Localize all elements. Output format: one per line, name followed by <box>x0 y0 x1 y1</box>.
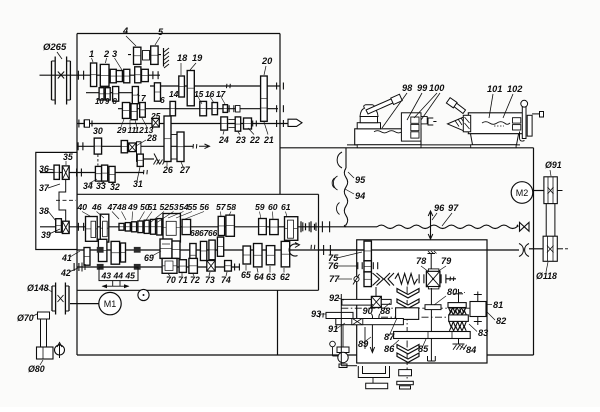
labels 43 44 45 with throw arrows <box>101 271 136 289</box>
gear 6 <box>154 83 160 101</box>
vertical feed screw axis x431 <box>430 288 432 332</box>
svg-text:41: 41 <box>61 253 72 263</box>
svg-text:91: 91 <box>328 324 338 334</box>
gear 7 <box>132 87 138 104</box>
pulley D70 <box>38 312 50 319</box>
frame around labels 43-45 <box>99 267 138 281</box>
label D118 leader <box>536 262 557 281</box>
bar 85 long <box>394 332 471 339</box>
label 20 leader <box>261 56 273 75</box>
svg-text:80: 80 <box>447 287 458 297</box>
svg-text:24: 24 <box>218 135 229 145</box>
svg-text:20: 20 <box>261 56 273 66</box>
svg-text:73: 73 <box>205 275 215 285</box>
worm wheel stack 86-87 upper <box>397 289 419 309</box>
gear 23 <box>235 117 241 131</box>
gear 32 <box>109 166 115 182</box>
svg-text:98: 98 <box>402 83 413 93</box>
feed box middle shaft y250 <box>77 249 319 251</box>
svg-text:M2: M2 <box>516 188 529 198</box>
cone gear set 47-55 <box>119 219 162 235</box>
gear 80 small <box>425 305 441 310</box>
tailstock quill lock blocks <box>513 118 521 130</box>
svg-text:49: 49 <box>127 202 138 212</box>
label D91 leader <box>545 160 562 176</box>
apron sub-wall line <box>341 294 357 366</box>
clutch 42 at wall <box>74 263 85 272</box>
gear 76 with bearings <box>358 261 378 272</box>
svg-text:18: 18 <box>177 53 188 63</box>
double slash feed shaft <box>310 245 312 249</box>
spring on shaft 78 <box>395 274 418 285</box>
gear 40 clutch block <box>86 217 98 242</box>
svg-text:86: 86 <box>384 344 395 354</box>
svg-text:6: 6 <box>160 95 165 105</box>
rack bar 91 <box>336 319 404 325</box>
bearing right end spindle <box>276 120 278 127</box>
gear 70 clutch block <box>162 258 177 273</box>
feed rod to pulley <box>529 248 543 250</box>
labels 4 5 with leaders <box>122 26 164 46</box>
gear 12 <box>131 104 137 120</box>
clutch on shaft III <box>229 105 240 112</box>
stop anchor item at y159 <box>154 154 166 165</box>
svg-text:M1: M1 <box>104 299 117 309</box>
svg-text:96: 96 <box>434 203 445 213</box>
gear 30 <box>94 138 101 154</box>
svg-text:19: 19 <box>192 53 203 63</box>
gear 71 <box>179 260 186 273</box>
shift linkage <box>59 179 66 221</box>
leadscrew straight part <box>319 226 378 228</box>
coupling 90 )( <box>371 314 380 321</box>
svg-text:7: 7 <box>141 93 146 103</box>
svg-text:102: 102 <box>507 84 523 94</box>
labels 18 19 with leaders <box>177 53 203 75</box>
feed rod <box>319 249 520 251</box>
svg-text:61: 61 <box>281 202 291 212</box>
label 25 leader <box>150 111 161 123</box>
svg-text:99: 99 <box>417 83 428 93</box>
frame: lower drive compartment <box>77 290 534 355</box>
svg-text:10: 10 <box>95 97 104 106</box>
labels 35 36 37 38 39 leaders <box>39 152 73 240</box>
worm 77 column lower <box>364 272 371 287</box>
svg-text:87: 87 <box>384 332 395 342</box>
svg-text:8: 8 <box>113 97 118 106</box>
M2 shaft stub <box>533 190 544 192</box>
pulley D148 block <box>52 283 69 315</box>
double slash on shaft II <box>226 84 228 88</box>
labels 95 94 with leaders <box>345 172 366 201</box>
clutch block 56 <box>163 214 180 243</box>
gear 34 <box>95 166 101 181</box>
clutch pack at spindle left end <box>79 120 92 128</box>
tailstock clamp hook <box>520 132 525 142</box>
gear 3 step discs <box>110 69 130 83</box>
svg-text:51: 51 <box>148 202 158 212</box>
svg-text:Ø118: Ø118 <box>536 271 557 281</box>
gear 75 <box>364 241 371 261</box>
saddle base strip <box>357 145 421 148</box>
label D265 with leader <box>43 42 67 59</box>
labels 65 64 63 62 leaders <box>241 265 290 282</box>
motor M1 shaft <box>70 303 99 305</box>
frame: sliding gear sub-box (items 35-39) <box>36 152 77 249</box>
gear 9 <box>105 88 110 100</box>
bearing at box wall shaft I <box>77 71 79 80</box>
bottom plates under screw <box>397 370 414 389</box>
pulley D80 <box>37 347 54 359</box>
svg-text:66: 66 <box>208 228 218 238</box>
frame: speed gearbox housing (box A) <box>77 34 280 356</box>
cross-feed axis dash-dot <box>341 308 470 317</box>
clutch 28 <box>129 143 137 152</box>
frame: bed right wall and top ways <box>280 145 534 355</box>
svg-text:70: 70 <box>166 275 176 285</box>
svg-text:36: 36 <box>39 164 49 174</box>
dashed link 30 to 34 <box>97 155 99 166</box>
gear after 69 <box>190 244 196 267</box>
svg-text:28: 28 <box>146 133 157 143</box>
saddle handle lever <box>366 94 402 114</box>
belt D70 to D80 <box>41 318 47 348</box>
motor M1 <box>99 292 121 314</box>
gear 72 <box>189 258 198 273</box>
short shaft to stop y159 <box>140 158 154 160</box>
gear 16 <box>212 103 218 115</box>
clutch gear 39 <box>62 221 69 233</box>
clutch gear 73 <box>207 261 215 272</box>
leadscrew nut bowtie <box>520 222 530 231</box>
small crank left <box>330 341 338 356</box>
clutch gear 35 <box>62 166 69 180</box>
svg-text:Ø70: Ø70 <box>17 313 34 323</box>
svg-text:17: 17 <box>216 89 226 99</box>
gear 63 <box>266 246 275 265</box>
ratchet teeth 83 <box>449 326 466 331</box>
bar 93 with slash end <box>320 312 354 318</box>
svg-text:27: 27 <box>179 165 191 175</box>
svg-text:88: 88 <box>380 306 391 316</box>
svg-text:89: 89 <box>358 339 369 349</box>
svg-text:16: 16 <box>205 89 215 99</box>
reverse tumbler block 69 <box>160 239 180 258</box>
gear 22 <box>244 118 257 129</box>
svg-text:Ø91: Ø91 <box>545 160 562 170</box>
ratchet wheel 81 upper <box>448 303 466 313</box>
vertical rod 89 with down arrow <box>365 325 375 353</box>
svg-text:43 44 45: 43 44 45 <box>101 271 136 281</box>
labels 68 67 66 <box>190 228 218 238</box>
block 86 rect <box>396 308 419 320</box>
svg-text:Ø148: Ø148 <box>27 283 49 293</box>
bearing blocks on shafts at 43-45 box walls <box>97 247 141 270</box>
svg-text:74: 74 <box>221 275 231 285</box>
svg-text:56: 56 <box>200 202 210 212</box>
feed box lower shaft y267 <box>77 266 240 268</box>
svg-text:25: 25 <box>150 111 161 121</box>
tailstock lever <box>446 98 465 114</box>
labels top row 40-61 <box>77 202 291 223</box>
svg-text:72: 72 <box>190 275 200 285</box>
gear 18 <box>179 76 185 97</box>
stub right of pulley D91 <box>557 190 562 192</box>
ground hatch 84 <box>453 332 467 350</box>
svg-text:90: 90 <box>363 306 374 316</box>
gear 4 <box>134 47 141 64</box>
shaft III y108.7 <box>118 108 278 110</box>
gear 15 <box>200 101 207 115</box>
shaft V y172.5 <box>40 170 147 174</box>
rotation arrow at 62 <box>289 244 297 256</box>
gear 29 <box>122 103 129 119</box>
svg-text:101: 101 <box>487 84 502 94</box>
svg-text:42: 42 <box>60 268 71 278</box>
gear 64 <box>254 244 263 267</box>
gear 58 <box>226 215 235 236</box>
labels 34 33 32 leaders <box>83 179 120 192</box>
svg-text:64: 64 <box>254 272 264 282</box>
pawl 77 <box>353 274 360 285</box>
gear 13 <box>140 103 146 118</box>
gear 20-21 long cluster <box>261 76 268 121</box>
clutch 41 gear tall <box>84 248 90 266</box>
svg-text:2: 2 <box>103 49 110 59</box>
motor M2 <box>511 182 533 204</box>
spindle coupling dashes <box>229 119 235 121</box>
ratchet chevrons <box>373 273 395 286</box>
svg-text:65: 65 <box>241 270 251 280</box>
svg-text:14: 14 <box>169 89 179 99</box>
bearing-clutch 41 at wall <box>78 223 83 231</box>
svg-text:60: 60 <box>268 202 278 212</box>
wall anchor for gear 5 <box>164 48 170 68</box>
svg-text:84: 84 <box>466 345 476 355</box>
labels 81 82 83 84 leaders <box>460 300 507 355</box>
vertical link rod 94-95 from bed <box>332 148 348 227</box>
frame: feed gearbox housing (box B) <box>77 194 319 290</box>
svg-text:95: 95 <box>355 175 366 185</box>
svg-text:69: 69 <box>144 253 154 263</box>
label 28 leader <box>136 133 157 146</box>
label D70 <box>17 313 37 323</box>
label 31 leader <box>133 167 143 189</box>
gear 36 <box>54 165 59 179</box>
gear 27 <box>177 132 184 162</box>
gear 65 <box>243 246 251 264</box>
svg-text:31: 31 <box>133 179 143 189</box>
label 69 leader <box>144 251 161 263</box>
svg-text:5: 5 <box>158 27 164 37</box>
svg-text:85: 85 <box>418 344 429 354</box>
svg-text:9: 9 <box>105 97 110 106</box>
svg-text:3: 3 <box>112 49 117 59</box>
gear 2 <box>100 64 109 86</box>
gear 57 <box>218 216 224 235</box>
worm circle under box B <box>138 289 149 300</box>
gear 24 <box>221 117 228 130</box>
shaft IV y146.3 with arrow end <box>77 144 210 149</box>
third gear stack in 43-45 area <box>121 243 126 262</box>
svg-text:79: 79 <box>441 256 452 266</box>
svg-text:71: 71 <box>178 275 188 285</box>
pulley D91 <box>544 177 557 204</box>
gear 38 <box>56 219 62 233</box>
pulley D265 cone block <box>52 57 71 105</box>
labels 101 102 with leaders <box>487 84 523 118</box>
svg-text:53: 53 <box>169 202 179 212</box>
gear 17 <box>223 105 228 113</box>
ratchet wheel axis stub top <box>454 289 463 303</box>
bearing top right of gear 20 <box>276 83 278 90</box>
gear 62 <box>281 241 290 267</box>
labels 1 2 3 with leaders <box>89 49 122 70</box>
shifter dash line in sub-box <box>56 199 76 201</box>
stub right of pulley D118 <box>557 248 568 250</box>
svg-text:35: 35 <box>63 152 73 162</box>
leadscrew clutch halves <box>303 221 330 232</box>
block 81 right <box>470 292 486 326</box>
tailstock handwheel <box>521 100 544 138</box>
svg-text:Ø80: Ø80 <box>28 364 45 374</box>
gear 60 <box>270 219 279 234</box>
shifter bar and gear 31 <box>137 142 144 167</box>
labels 29 11 12 13 <box>116 118 154 135</box>
bearing after clutch 78 <box>440 274 442 283</box>
label D148 leader <box>46 288 52 292</box>
leadscrew wavy thread <box>377 225 518 228</box>
tension roller with arrow <box>55 343 65 359</box>
gear row2 c <box>217 237 223 256</box>
svg-text:81: 81 <box>493 300 503 310</box>
bearing before clutch 78 <box>418 274 420 283</box>
feed selector arrow 96-97 <box>428 211 433 239</box>
apron input shaft y250 into gear 75 <box>319 249 365 251</box>
overload clutch at box B exit <box>301 221 315 232</box>
saddle base block <box>355 129 421 145</box>
feed rod clutch <box>324 245 331 255</box>
shaft stub gears 4-5 y54.6 <box>128 54 164 56</box>
svg-text:97: 97 <box>448 203 459 213</box>
svg-text:32: 32 <box>110 182 120 192</box>
labels 41 42 leaders <box>60 251 80 278</box>
belt D91 to D118 <box>546 204 555 237</box>
svg-text:63: 63 <box>266 272 276 282</box>
svg-text:52: 52 <box>160 202 170 212</box>
handwheel stack left of apron <box>337 325 349 368</box>
svg-text:39: 39 <box>41 230 51 240</box>
spindle y123.5 <box>77 123 288 125</box>
labels 24 23 22 21 leaders <box>218 122 274 145</box>
labels 70-74 leaders <box>166 272 231 285</box>
gear 10 <box>99 88 104 100</box>
labels 26 27 leaders <box>162 162 191 175</box>
rod below 85 <box>428 339 436 362</box>
gear right of 56 <box>182 219 191 234</box>
shaft gears 10-9-8 y92.7 <box>86 92 135 94</box>
vertical stub 77 to 92 <box>375 287 377 297</box>
gear 1 <box>91 63 97 87</box>
svg-text:Ø265: Ø265 <box>43 42 67 53</box>
labels in apron <box>311 252 429 354</box>
gear 46 <box>100 214 109 242</box>
gear 5 <box>151 46 158 64</box>
labels 98 99 100 with leaders <box>382 83 445 128</box>
shaft II y86 <box>150 85 280 87</box>
cross feed bar 92 <box>342 296 391 307</box>
tall gear pair left <box>98 239 119 264</box>
svg-text:83: 83 <box>478 328 488 338</box>
svg-text:78: 78 <box>416 256 427 266</box>
svg-text:4: 4 <box>122 26 128 36</box>
clutch sleeve on shaft I <box>135 67 141 83</box>
label 80 leader <box>434 287 465 305</box>
cross slide plate <box>401 113 421 141</box>
feed box main shaft y226.8 <box>40 226 319 228</box>
gear 8 <box>113 87 119 102</box>
svg-text:23: 23 <box>235 135 246 145</box>
gear 14 <box>170 101 176 115</box>
gear 19 <box>187 71 194 106</box>
spindle nose arrow <box>288 119 302 126</box>
gear row2 a <box>200 241 206 260</box>
svg-text:57: 57 <box>216 202 227 212</box>
svg-text:46: 46 <box>91 202 102 212</box>
labels 10 9 8 <box>95 97 118 106</box>
pulley D118 <box>543 236 557 261</box>
spring anchor above clutch 78 <box>428 251 437 269</box>
svg-text:59: 59 <box>255 202 265 212</box>
label D80 <box>28 360 45 374</box>
gear 59 <box>259 219 267 235</box>
vertical screw axis dash-dot <box>406 287 408 382</box>
gear 26 long <box>164 116 171 162</box>
labels 7 6 <box>137 93 165 105</box>
svg-text:40: 40 <box>77 202 88 212</box>
svg-text:94: 94 <box>355 191 365 201</box>
gear 11 lower <box>121 141 127 153</box>
svg-text:12: 12 <box>135 125 145 135</box>
worm wheel stack lower <box>397 345 419 363</box>
svg-text:55: 55 <box>188 202 198 212</box>
svg-text:58: 58 <box>227 202 237 212</box>
gear 74 <box>225 261 232 272</box>
gear 33 <box>102 165 108 181</box>
bearing end row3 <box>234 264 236 271</box>
handwheel bearing bracket <box>358 366 389 389</box>
clutch 25 on spindle <box>152 118 159 127</box>
frame: apron housing <box>357 240 487 363</box>
coupling between 4 and 5 <box>143 51 150 61</box>
svg-text:21: 21 <box>263 135 274 145</box>
labels 14 15 16 17 with leaders <box>169 89 226 104</box>
shaft I input y75 <box>40 74 91 76</box>
svg-text:1: 1 <box>89 49 94 59</box>
tailstock center cone <box>448 115 471 132</box>
svg-text:38: 38 <box>39 206 49 216</box>
saddle turret body <box>357 105 380 129</box>
tailstock body <box>468 113 525 134</box>
labels 78 79 with leaders <box>416 256 452 272</box>
svg-text:62: 62 <box>280 272 290 282</box>
gear row2 b <box>209 240 215 260</box>
shaft in sub-box y172.5 bearing <box>76 169 78 177</box>
bearing right end shaft III <box>276 105 278 112</box>
svg-text:15: 15 <box>194 89 204 99</box>
svg-text:100: 100 <box>429 83 445 93</box>
svg-text:22: 22 <box>249 135 260 145</box>
